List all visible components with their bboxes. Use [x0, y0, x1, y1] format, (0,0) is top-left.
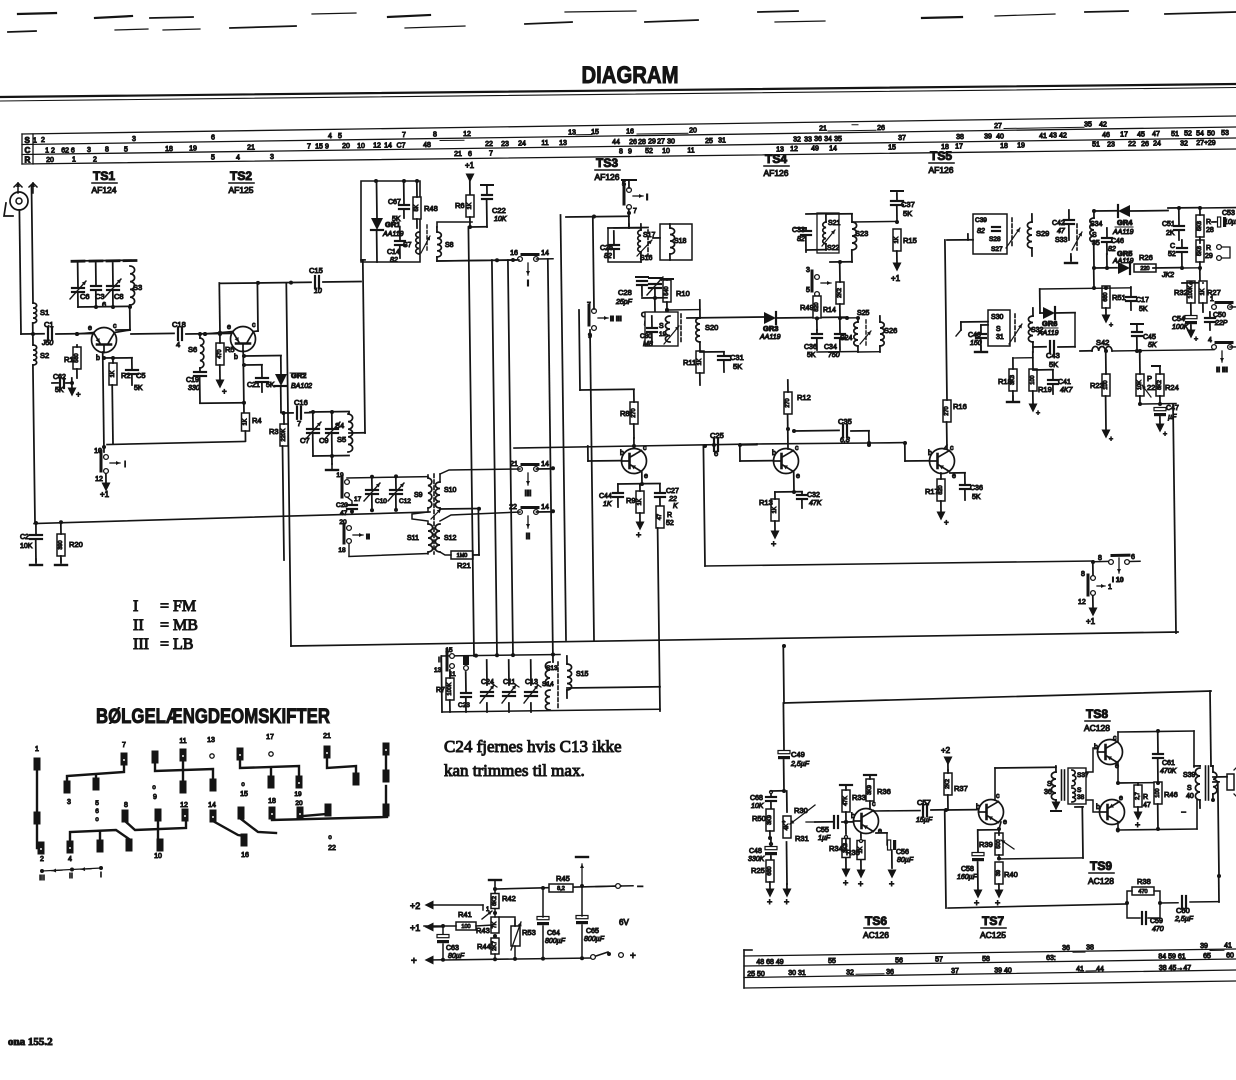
svg-text:11: 11	[179, 738, 186, 745]
svg-text:R43: R43	[476, 926, 490, 935]
svg-text:C65: C65	[586, 928, 599, 935]
svg-text:GR5: GR5	[1117, 249, 1132, 258]
svg-text:C57: C57	[917, 798, 931, 807]
bottom band line 4	[744, 981, 1236, 988]
svg-text:6V: 6V	[619, 918, 629, 927]
svg-text:82: 82	[1108, 246, 1116, 253]
svg-text:5K6: 5K6	[1197, 221, 1203, 231]
svg-text:S30: S30	[991, 314, 1004, 321]
svg-text:18: 18	[268, 798, 276, 805]
footer ona 155.2	[8, 1036, 53, 1048]
long vertical mid4	[561, 215, 567, 640]
capacitor C60	[1174, 876, 1219, 923]
capacitor C37	[891, 191, 915, 224]
coil S29	[1027, 214, 1049, 256]
osc switch 20-18	[338, 519, 370, 554]
svg-text:S15: S15	[576, 671, 589, 678]
capacitor C58	[957, 830, 999, 908]
psu minus out	[596, 881, 643, 893]
svg-text:C56: C56	[896, 849, 909, 856]
svg-text:5K: 5K	[972, 494, 981, 501]
svg-text:47: 47	[1143, 802, 1151, 809]
svg-text:e: e	[227, 324, 231, 331]
svg-text:39 40: 39 40	[994, 967, 1012, 974]
bottom band line 2	[744, 959, 1236, 966]
long vertical mid6	[468, 227, 474, 656]
transistor TS4 sym pins	[772, 445, 800, 480]
wire TS5 in	[947, 239, 973, 241]
wire TS6 c	[874, 810, 920, 812]
svg-text:C50: C50	[1213, 312, 1226, 319]
wire	[967, 234, 969, 240]
switch contact 21-14	[510, 461, 549, 498]
svg-text:2,7: 2,7	[1135, 792, 1141, 800]
osc core dashes	[426, 225, 428, 250]
svg-text:47: 47	[657, 514, 663, 520]
svg-text:5: 5	[806, 287, 810, 294]
svg-text:34: 34	[824, 136, 832, 143]
svg-text:DIAGRAM: DIAGRAM	[582, 62, 679, 89]
svg-text:22P: 22P	[1214, 320, 1228, 327]
resistor R27	[1199, 281, 1221, 312]
svg-text:8: 8	[105, 147, 109, 154]
svg-text:S14: S14	[542, 681, 554, 688]
svg-text:11: 11	[541, 140, 548, 147]
psu +1 feed	[410, 923, 443, 934]
svg-text:8K2: 8K2	[492, 896, 498, 906]
capacitor C32	[797, 492, 822, 508]
wire driver in	[995, 766, 1056, 769]
svg-text:100: 100	[1030, 375, 1036, 384]
svg-text:R9: R9	[626, 496, 636, 505]
wire top right rail	[1168, 207, 1236, 209]
wire	[1092, 209, 1109, 288]
svg-text:38: 38	[1077, 794, 1085, 801]
legend III = LB	[133, 636, 193, 653]
svg-text:C2: C2	[20, 534, 29, 541]
wire TS5 base	[905, 443, 929, 461]
bus y446	[514, 443, 757, 448]
svg-text:+2: +2	[410, 901, 420, 911]
tank bottom	[313, 454, 349, 470]
supply tri	[783, 884, 792, 907]
capacitor C52	[1168, 240, 1187, 268]
svg-text:+: +	[1163, 431, 1167, 438]
resistor R49	[800, 296, 821, 330]
node osc	[642, 296, 669, 312]
svg-text:15: 15	[315, 144, 323, 151]
resistor R37	[944, 770, 968, 810]
capacitor C27	[655, 484, 679, 510]
svg-text:AA119: AA119	[759, 334, 781, 341]
svg-text:c: c	[252, 322, 256, 329]
wire	[827, 213, 852, 215]
svg-text:4: 4	[176, 340, 180, 349]
svg-text:C6: C6	[80, 292, 90, 301]
emitter rail	[1116, 762, 1160, 785]
band S-row dashes	[440, 125, 1084, 141]
svg-text:270: 270	[944, 406, 950, 415]
capacitor C7 var	[300, 412, 321, 456]
svg-text:84 59 61: 84 59 61	[1158, 953, 1185, 960]
svg-text:e: e	[88, 325, 92, 332]
svg-text:TS5: TS5	[930, 149, 952, 163]
capacitor C40	[968, 325, 988, 352]
svg-text:22: 22	[668, 496, 677, 503]
antenna socket	[4, 192, 28, 216]
resistor R12	[784, 380, 811, 414]
svg-text:GR2: GR2	[291, 371, 306, 380]
capacitor C41	[1033, 370, 1074, 394]
svg-text:52: 52	[1168, 251, 1176, 258]
capacitor C26	[600, 231, 619, 260]
svg-text:C: C	[25, 146, 31, 155]
svg-text:C67: C67	[388, 199, 401, 206]
svg-text:1K: 1K	[603, 501, 612, 508]
svg-text:51: 51	[1092, 142, 1100, 149]
IF transformer S9-S12	[407, 474, 457, 554]
svg-text:C7: C7	[300, 436, 310, 445]
svg-text:220K: 220K	[281, 428, 287, 441]
svg-text:10K: 10K	[494, 216, 507, 223]
capacitor C15	[219, 266, 361, 646]
resistor R16	[943, 240, 967, 449]
svg-text:TS8: TS8	[1086, 707, 1108, 721]
wire	[653, 224, 670, 260]
svg-text:R4: R4	[252, 416, 262, 425]
diode GR3	[687, 312, 847, 341]
svg-text:11: 11	[687, 148, 694, 155]
transistor TS2	[231, 327, 256, 352]
transistor TS7 pins	[976, 793, 1007, 826]
svg-text:c: c	[795, 445, 799, 452]
svg-text:R15: R15	[903, 236, 917, 245]
node	[845, 316, 871, 447]
svg-text:C14: C14	[387, 249, 400, 256]
coil S32	[1028, 308, 1043, 352]
svg-text:21: 21	[323, 733, 331, 740]
svg-text:AA119: AA119	[1112, 258, 1134, 265]
svg-text:C43: C43	[1046, 351, 1060, 360]
svg-text:II: II	[69, 873, 73, 880]
svg-text:12: 12	[1078, 599, 1086, 606]
svg-text:1K: 1K	[637, 498, 643, 505]
svg-text:+: +	[1109, 436, 1113, 443]
svg-text:C35: C35	[838, 417, 852, 426]
resistor R23	[1090, 349, 1113, 443]
svg-text:+1: +1	[410, 923, 420, 933]
resistor R46	[1154, 782, 1178, 831]
capacitor C34	[824, 318, 845, 359]
capacitor C21	[244, 365, 275, 392]
transistor TS9 label	[1088, 859, 1114, 886]
svg-text:C24: C24	[481, 679, 494, 686]
svg-text:III: III	[39, 875, 45, 882]
band left border	[22, 134, 33, 164]
svg-text:S16: S16	[640, 255, 653, 262]
svg-text:R16: R16	[953, 402, 967, 411]
resistor R42	[491, 894, 516, 916]
svg-text:39: 39	[1200, 943, 1208, 950]
band line 3	[22, 138, 1236, 155]
wire	[1180, 266, 1202, 283]
svg-text:R37: R37	[954, 784, 968, 793]
wire S21 S22	[806, 214, 840, 252]
svg-text:R25: R25	[751, 866, 765, 875]
title DIAGRAM	[582, 62, 679, 89]
svg-text:S20: S20	[705, 323, 718, 332]
svg-text:C5: C5	[136, 371, 146, 380]
svg-text:R: R	[1206, 219, 1211, 226]
svg-text:15µF: 15µF	[916, 817, 933, 824]
wire tank to collector	[116, 305, 132, 330]
svg-text:7: 7	[633, 208, 637, 215]
wire	[622, 180, 636, 228]
svg-text:C12: C12	[399, 498, 411, 505]
svg-text:C48: C48	[749, 848, 762, 855]
svg-text:R44: R44	[477, 942, 491, 951]
svg-text:38: 38	[1086, 945, 1094, 952]
svg-text:AC128: AC128	[1084, 723, 1110, 733]
svg-text:−: −	[1181, 807, 1186, 817]
svg-text:S39: S39	[1183, 772, 1196, 779]
resistor R5	[216, 332, 235, 380]
svg-text:1M0: 1M0	[457, 553, 468, 559]
svg-text:R35: R35	[846, 848, 860, 857]
transistor TS8 label	[1084, 707, 1110, 733]
coil S15	[567, 656, 589, 698]
torn paper edge dashes	[8, 11, 1236, 32]
svg-text:C15: C15	[309, 266, 323, 275]
svg-text:1: 1	[33, 137, 37, 144]
svg-text:27÷29: 27÷29	[1196, 140, 1216, 147]
svg-text:1K: 1K	[894, 236, 900, 243]
psu out switch	[591, 951, 636, 962]
svg-text:R7: R7	[436, 687, 445, 694]
svg-text:31: 31	[718, 138, 726, 145]
svg-text:28: 28	[1206, 227, 1214, 234]
svg-text:2K2: 2K2	[945, 779, 951, 789]
svg-text:R14: R14	[823, 307, 836, 314]
psu bottom rail	[441, 956, 591, 962]
svg-text:C51: C51	[1162, 221, 1175, 228]
svg-text:5K: 5K	[903, 209, 912, 218]
switch node circles	[35, 748, 387, 850]
osc top wire	[347, 477, 428, 478]
driver sec box	[1068, 768, 1089, 804]
svg-text:= MB: = MB	[160, 617, 198, 634]
svg-text:100K: 100K	[447, 682, 453, 695]
svg-text:S: S	[659, 323, 664, 330]
IF3 can S28	[973, 214, 1007, 254]
switch pads	[34, 743, 390, 855]
svg-text:17: 17	[1120, 132, 1128, 139]
transistor TS9	[1100, 800, 1125, 825]
svg-text:+1: +1	[100, 490, 110, 499]
output transformer	[1181, 766, 1218, 817]
svg-text:36: 36	[814, 136, 822, 143]
svg-text:C55: C55	[816, 827, 829, 834]
svg-text:47: 47	[1152, 131, 1160, 138]
svg-text:330K: 330K	[748, 856, 765, 863]
pot P22	[1136, 349, 1155, 404]
diode GR2	[275, 356, 312, 413]
switch wiring	[37, 756, 387, 848]
svg-text:c: c	[996, 793, 1000, 800]
capacitor C48	[748, 838, 777, 863]
resistor R4	[242, 413, 262, 441]
band R-row numbers	[46, 140, 1216, 164]
svg-text:= FM: = FM	[160, 598, 196, 615]
svg-text:1µF: 1µF	[818, 835, 831, 842]
svg-text:+: +	[767, 897, 772, 907]
transistor TS4 symbol	[774, 449, 799, 474]
coil S6	[188, 332, 204, 368]
svg-text:S28: S28	[989, 236, 1001, 243]
svg-text:b: b	[772, 450, 776, 457]
wire	[21, 333, 44, 335]
main bus B1	[291, 632, 1178, 646]
svg-text:AC128: AC128	[1088, 876, 1114, 886]
transistor TS3 symbol	[622, 449, 647, 474]
svg-text:8: 8	[433, 131, 437, 138]
svg-text:56: 56	[895, 957, 903, 964]
svg-text:13: 13	[207, 737, 215, 744]
svg-text:R6: R6	[455, 201, 465, 210]
svg-text:51: 51	[1171, 131, 1179, 138]
svg-text:C36: C36	[804, 344, 817, 351]
coil S42	[1080, 338, 1214, 351]
svg-text:44: 44	[1096, 966, 1104, 973]
svg-text:40: 40	[1186, 793, 1194, 800]
svg-text:C7: C7	[397, 142, 406, 149]
svg-text:39: 39	[996, 870, 1002, 876]
svg-text:270: 270	[631, 408, 637, 417]
resistor R8	[620, 390, 638, 438]
svg-text:TS4: TS4	[765, 152, 787, 166]
svg-text:1K: 1K	[110, 370, 116, 377]
svg-text:b: b	[1096, 804, 1100, 811]
svg-text:80µF: 80µF	[897, 857, 914, 864]
svg-text:22: 22	[328, 845, 336, 852]
wire det	[1040, 289, 1043, 313]
svg-text:60: 60	[1226, 953, 1234, 960]
svg-text:GR3: GR3	[763, 324, 778, 333]
coil S26	[880, 316, 897, 352]
svg-text:1K: 1K	[467, 202, 473, 209]
wire antenna down	[19, 186, 33, 334]
svg-text:470: 470	[217, 349, 223, 358]
svg-text:R48: R48	[424, 204, 438, 213]
svg-text:S26: S26	[884, 326, 897, 335]
svg-text:+: +	[858, 879, 863, 889]
wire TS8 base	[1086, 748, 1098, 772]
wire	[537, 258, 554, 260]
svg-text:C10: C10	[375, 498, 387, 505]
resistor R24	[1152, 366, 1179, 404]
band C-row numbers	[45, 130, 1229, 154]
svg-text:13: 13	[434, 667, 442, 674]
capacitor C62	[52, 374, 74, 394]
S30 dashes	[1009, 314, 1022, 344]
svg-text:C44: C44	[599, 493, 612, 500]
supply	[1086, 596, 1098, 626]
svg-text:I: I	[124, 460, 126, 469]
svg-text:II: II	[133, 617, 144, 634]
resistor R40	[995, 862, 1018, 908]
svg-text:R33: R33	[852, 793, 866, 802]
svg-text:16: 16	[510, 250, 518, 257]
svg-text:9: 9	[153, 794, 157, 801]
wire	[579, 310, 634, 390]
transistor TS2 label	[228, 169, 254, 195]
svg-text:R12: R12	[797, 393, 811, 402]
svg-text:b: b	[620, 450, 624, 457]
svg-text:R45: R45	[556, 874, 570, 883]
svg-text:5: 5	[95, 800, 99, 807]
svg-text:100: 100	[461, 924, 470, 930]
transistor TS2 pins	[227, 322, 256, 361]
svg-text:62 6: 62 6	[61, 147, 75, 154]
coil S7	[403, 232, 430, 254]
svg-text:BA102: BA102	[291, 383, 312, 390]
capacitor C64	[537, 889, 566, 958]
svg-text:C31: C31	[730, 353, 744, 362]
band S-row numbers	[33, 122, 1107, 145]
svg-text:S: S	[1187, 785, 1192, 792]
capacitor C29	[641, 277, 663, 328]
capacitor C31	[700, 352, 744, 372]
wire	[1092, 563, 1094, 575]
transistor TS8	[1098, 740, 1123, 765]
S13 block bottom	[441, 656, 660, 712]
svg-text:S24: S24	[840, 335, 853, 342]
svg-text:C32: C32	[807, 492, 820, 499]
switch contact 1	[1210, 296, 1236, 309]
capacitor C46	[1102, 228, 1124, 254]
svg-text:P: P	[1147, 374, 1152, 383]
band row letter C	[25, 146, 31, 155]
IF1 can left	[608, 228, 648, 263]
svg-text:58: 58	[982, 956, 990, 963]
svg-text:R30: R30	[794, 806, 808, 815]
svg-text:220: 220	[1140, 266, 1149, 272]
svg-text:27: 27	[994, 123, 1002, 130]
wire TS2 e	[203, 331, 233, 336]
svg-text:25: 25	[705, 138, 713, 145]
svg-text:25 50: 25 50	[747, 971, 765, 978]
svg-text:10K: 10K	[20, 543, 33, 550]
band line 4	[22, 149, 1236, 164]
transistor TS1	[92, 328, 117, 353]
node	[474, 653, 555, 658]
svg-text:S18: S18	[674, 238, 687, 245]
wire det bias	[1013, 357, 1033, 359]
svg-text:6: 6	[714, 449, 718, 458]
svg-text:+: +	[222, 387, 227, 396]
coil S8	[437, 227, 454, 261]
svg-text:100: 100	[1103, 380, 1109, 389]
svg-text:2K: 2K	[1166, 230, 1175, 237]
svg-text:C63: C63	[446, 945, 459, 952]
svg-text:47: 47	[340, 510, 348, 517]
svg-text:TS9: TS9	[1090, 859, 1112, 873]
svg-text:R41: R41	[458, 910, 472, 919]
wire TS1 base down	[102, 352, 106, 452]
svg-text:2,5µF: 2,5µF	[790, 761, 810, 768]
svg-text:750: 750	[828, 352, 840, 359]
svg-text:7: 7	[489, 151, 493, 158]
